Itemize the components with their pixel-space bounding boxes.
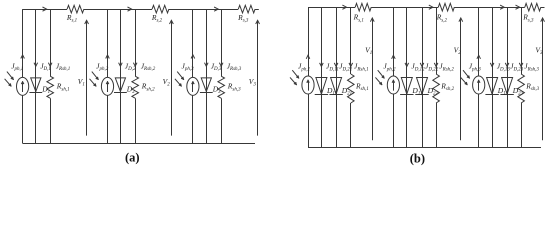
svg-text:D1: D1 <box>41 85 50 96</box>
svg-text:JD,1: JD,1 <box>40 61 51 72</box>
svg-text:Jph,2: Jph,2 <box>96 61 109 72</box>
svg-text:Rs,2: Rs,2 <box>436 13 448 24</box>
svg-text:D11: D11 <box>326 86 337 97</box>
svg-text:(b): (b) <box>410 152 425 166</box>
svg-text:V3: V3 <box>535 46 543 57</box>
svg-text:V2: V2 <box>163 77 171 88</box>
svg-text:Rsh,3: Rsh,3 <box>227 82 241 93</box>
svg-text:D3: D3 <box>212 85 221 96</box>
svg-text:D2: D2 <box>126 85 135 96</box>
svg-text:D23: D23 <box>512 86 524 97</box>
svg-text:Rsh,1: Rsh,1 <box>56 82 70 93</box>
svg-text:JD,3: JD,3 <box>211 61 222 72</box>
svg-text:Rs,3: Rs,3 <box>237 13 249 24</box>
svg-text:(a): (a) <box>125 151 140 165</box>
svg-text:JRsh,2: JRsh,2 <box>141 61 156 72</box>
svg-text:D22: D22 <box>427 86 439 97</box>
svg-text:Rs,2: Rs,2 <box>151 13 163 24</box>
svg-text:Jph,2: Jph,2 <box>383 62 396 73</box>
svg-text:Rsh,2: Rsh,2 <box>141 82 155 93</box>
svg-text:JRsh,1: JRsh,1 <box>354 62 369 73</box>
svg-text:Rs,1: Rs,1 <box>66 13 77 24</box>
svg-text:Jph,3: Jph,3 <box>469 62 482 73</box>
svg-text:JD,2: JD,2 <box>125 61 136 72</box>
svg-text:D13: D13 <box>497 86 509 97</box>
svg-text:Rs,1: Rs,1 <box>353 13 364 24</box>
svg-text:V1: V1 <box>78 77 85 88</box>
svg-text:JRsh,2: JRsh,2 <box>439 62 454 73</box>
svg-text:D21: D21 <box>341 86 352 97</box>
svg-text:V1: V1 <box>365 46 372 57</box>
svg-text:Rsh,2: Rsh,2 <box>440 81 454 92</box>
svg-text:D12: D12 <box>411 86 423 97</box>
svg-text:Jph,1: Jph,1 <box>11 61 23 72</box>
svg-text:V3: V3 <box>249 77 257 88</box>
svg-text:JRsh,3: JRsh,3 <box>227 61 242 72</box>
svg-text:Rsh,3: Rsh,3 <box>525 81 539 92</box>
svg-text:JRsh,3: JRsh,3 <box>524 62 539 73</box>
svg-text:JD,12: JD,12 <box>411 62 425 73</box>
svg-text:Rsh,1: Rsh,1 <box>355 81 369 92</box>
svg-text:Rs,3: Rs,3 <box>522 13 534 24</box>
svg-text:JRsh,1: JRsh,1 <box>56 61 71 72</box>
